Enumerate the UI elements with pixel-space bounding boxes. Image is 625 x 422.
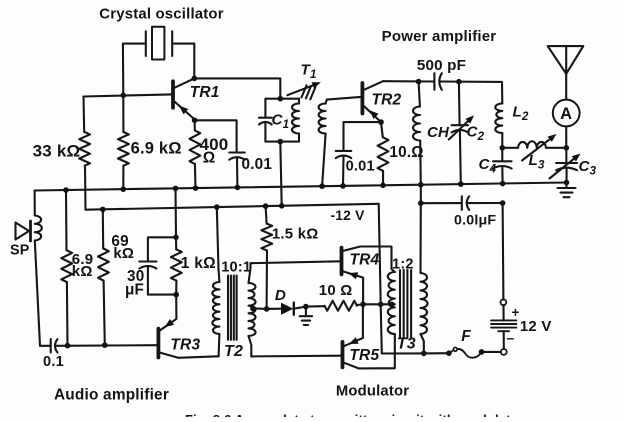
resistor 1 kOhm xyxy=(171,249,182,280)
wire decoupling right xyxy=(467,202,503,204)
node T3 secondary bottom xyxy=(421,351,427,357)
node -12V rail 1.5k xyxy=(263,203,269,209)
label TR4 xyxy=(350,251,380,268)
wire TR4 base xyxy=(251,261,341,263)
wire to 0.1 cap xyxy=(40,345,51,347)
wire battery top xyxy=(502,203,505,300)
svg-text:kΩ: kΩ xyxy=(72,263,93,280)
capacitor 30uF bottom wire xyxy=(148,266,176,294)
resistor 10 Ohm wire left xyxy=(306,305,325,307)
transformer T2 secondary bottom wire xyxy=(249,336,252,356)
label uF xyxy=(125,282,144,299)
node rail xyxy=(340,183,346,189)
transformer T1 primary stub xyxy=(298,99,300,104)
transistor TR5 emitter xyxy=(344,304,363,346)
transformer T1 secondary coil xyxy=(319,104,326,134)
meter A xyxy=(553,100,580,127)
wire TR3 collector to T2 xyxy=(217,355,220,357)
node rail xyxy=(121,186,127,192)
label SP xyxy=(10,242,30,258)
label 400 xyxy=(200,135,229,154)
transistor TR3 emitter xyxy=(160,295,176,331)
wire TR1 collector line xyxy=(194,78,280,98)
svg-text:T3: T3 xyxy=(397,335,416,352)
svg-text:12 V: 12 V xyxy=(520,318,552,335)
node emitters junction xyxy=(360,302,366,308)
capacitor 0.01 branch (TR2) xyxy=(344,122,382,151)
capacitor 0.01 branch wire xyxy=(195,120,237,152)
wire 0.01 bottom xyxy=(236,158,238,188)
antenna xyxy=(548,46,584,74)
wire TR3 base line xyxy=(55,344,157,347)
label C3 xyxy=(579,158,597,178)
wire battery xyxy=(502,305,504,320)
svg-text:F: F xyxy=(461,328,471,345)
node decoupling left xyxy=(418,200,424,206)
node tank top xyxy=(278,96,284,102)
wire TR1 base line xyxy=(84,94,172,96)
wire 33k bottom crossing rail to -12V rail xyxy=(84,166,87,210)
capacitor 0.1 xyxy=(51,339,58,352)
battery 12V plates xyxy=(491,320,516,331)
inductor SP coil xyxy=(35,216,42,241)
capacitor 0.01 (oscillator) xyxy=(229,153,245,160)
resistor 1.5k lead top xyxy=(266,206,267,224)
node rail xyxy=(380,183,386,189)
transformer T3 secondary bottom wire xyxy=(421,334,424,353)
label 6.9 kOhm xyxy=(131,139,182,157)
svg-text:+: + xyxy=(512,305,520,320)
label 10 Ohm xyxy=(389,144,423,161)
node antenna branch xyxy=(564,145,570,151)
capacitor C2 lead bottom xyxy=(459,131,462,185)
transistor TR3 collector xyxy=(160,353,218,358)
wire meter to node xyxy=(565,126,567,147)
svg-text:Power amplifier: Power amplifier xyxy=(382,28,497,45)
fuse F xyxy=(451,347,482,357)
svg-text:1:2: 1:2 xyxy=(392,257,414,273)
capacitor C1 loop top xyxy=(265,99,280,118)
transformer T1 core slug marks xyxy=(302,85,316,99)
capacitor C3 arrow xyxy=(550,154,581,179)
label Ohm xyxy=(203,149,216,166)
resistor 1.5 kOhm xyxy=(261,224,272,251)
node rail end xyxy=(564,180,570,186)
wire -12V to fuse line xyxy=(381,304,424,353)
transistor TR1 collector xyxy=(175,78,195,87)
svg-text:T2: T2 xyxy=(224,343,243,360)
resistor 69k top wire xyxy=(102,209,104,248)
transformer T2 primary wire top xyxy=(217,207,219,269)
label 12 V xyxy=(520,318,552,335)
node C2 top xyxy=(456,79,462,85)
label 6.9 xyxy=(72,251,93,268)
transformer T1 secondary bottom wire xyxy=(322,134,326,187)
svg-text:6.9 kΩ: 6.9 kΩ xyxy=(131,139,182,157)
resistor 1k top wire xyxy=(174,188,177,237)
node decoupling right xyxy=(500,200,506,206)
wire CH bottom xyxy=(419,141,422,185)
resistor 69k bottom wire xyxy=(104,281,105,346)
diode D xyxy=(267,303,306,315)
wire 6.9k bottom xyxy=(122,166,124,190)
transistor TR5 collector xyxy=(344,334,395,368)
transformer T2 center tap xyxy=(253,307,267,310)
label 10:1 xyxy=(221,259,251,275)
svg-text:TR4: TR4 xyxy=(350,251,380,268)
node rail xyxy=(418,182,424,188)
svg-text:10:1: 10:1 xyxy=(221,259,251,275)
resistor 6.9k audio top wire xyxy=(65,190,68,250)
inductor L3 wire left xyxy=(502,147,518,149)
label Audio amplifier xyxy=(54,386,169,403)
resistor 10 Ohm lead xyxy=(381,122,383,137)
resistor 10 Ohm (emitter) xyxy=(378,137,389,171)
label Power amplifier xyxy=(382,28,497,45)
transformer T2 primary lead xyxy=(217,269,220,282)
node fuse right xyxy=(479,349,485,355)
label 0.01uF xyxy=(454,212,496,228)
capacitor C4 lead xyxy=(501,148,503,161)
svg-text:500 pF: 500 pF xyxy=(417,57,466,74)
label 1:2 xyxy=(392,257,414,273)
wire -12V rail xyxy=(86,204,379,210)
svg-text:1 kΩ: 1 kΩ xyxy=(181,255,216,272)
transformer T1 primary top wire xyxy=(280,98,299,100)
capacitor C1 loop bottom xyxy=(265,123,280,142)
node TR1 base junction xyxy=(121,93,127,99)
speaker SP xyxy=(16,221,31,241)
inductor L3 wire right xyxy=(546,147,566,149)
label D xyxy=(275,287,286,304)
inductor L3 coil xyxy=(518,141,546,148)
node 1.5k bottom xyxy=(264,306,270,312)
wire 0.01 bottom xyxy=(342,156,345,186)
capacitor C2 arrow xyxy=(449,115,474,139)
node -12V rail T2 xyxy=(214,204,220,210)
battery + terminal xyxy=(501,299,507,305)
inductor CH lead xyxy=(419,82,420,107)
svg-text:A: A xyxy=(560,105,572,123)
transformer T1 primary bottom wire xyxy=(280,134,299,142)
transistor TR3 base bar xyxy=(156,329,160,358)
wire TR5 base xyxy=(251,355,341,358)
transformer T2 core xyxy=(228,276,237,340)
label 33 kOhm xyxy=(33,142,81,161)
wire battery to fuse xyxy=(482,351,502,353)
transformer T3 core xyxy=(400,270,411,338)
svg-text:10 Ω: 10 Ω xyxy=(319,282,353,299)
inductor L3 arrow xyxy=(522,134,557,161)
label kOhm xyxy=(72,263,93,280)
label C2 xyxy=(467,124,485,144)
transformer T2 secondary coil xyxy=(249,283,256,336)
label C4 xyxy=(479,156,497,176)
svg-text:TR2: TR2 xyxy=(372,91,402,108)
label - xyxy=(507,330,515,346)
node CH top xyxy=(416,79,422,85)
svg-text:–: – xyxy=(507,330,515,346)
node L2 bottom xyxy=(500,145,506,151)
capacitor C2 variable xyxy=(452,125,468,132)
crystal X1 body xyxy=(152,27,164,60)
label Crystal oscillator xyxy=(99,7,223,23)
transformer T3 secondary coil xyxy=(421,273,428,334)
node base 69k xyxy=(102,342,108,348)
node rail 6.9k xyxy=(63,187,69,193)
label 10 Ohm xyxy=(319,282,353,299)
svg-text:μF: μF xyxy=(125,282,144,299)
capacitor 500 pF xyxy=(434,73,441,90)
label -12 V xyxy=(331,208,366,223)
label 69 xyxy=(111,233,128,250)
transistor TR4 collector xyxy=(343,247,395,273)
resistor 69 kOhm xyxy=(98,249,109,281)
label F xyxy=(461,328,471,345)
resistor 1k lead xyxy=(175,237,177,249)
inductor L2 coil xyxy=(495,104,502,134)
inductor CH coil xyxy=(413,107,420,141)
cropped caption xyxy=(185,412,524,422)
label kOhm xyxy=(113,245,134,262)
crystal X1 left wire xyxy=(123,44,146,96)
label 0.01 xyxy=(346,159,375,175)
transformer T1 tuning arrow xyxy=(287,82,320,95)
node TR1 emitter junction xyxy=(192,118,198,124)
inductor L2 top wire xyxy=(501,82,503,104)
transformer T1 primary coil xyxy=(292,104,299,134)
node -12V 69k xyxy=(100,207,106,213)
transistor TR1 base bar xyxy=(171,81,175,107)
node fuse left xyxy=(446,350,452,356)
transformer T3 secondary top wire xyxy=(419,203,421,273)
label T3 xyxy=(397,335,416,352)
resistor 6.9 kOhm (oscillator) xyxy=(118,132,129,166)
svg-text:0.01: 0.01 xyxy=(242,156,273,173)
transformer T2 primary bottom wire xyxy=(218,334,221,356)
wire 500pF line left xyxy=(383,80,434,82)
inductor L2 lead bottom xyxy=(501,133,503,148)
label TR3 xyxy=(170,337,200,354)
capacitor C3 variable xyxy=(556,163,577,170)
battery - terminal xyxy=(501,349,507,355)
node rail xyxy=(319,183,325,189)
resistor 6.9 kOhm (audio) xyxy=(61,250,72,282)
node T2 center tap xyxy=(250,306,256,312)
node rail xyxy=(193,185,199,191)
label TR1 xyxy=(190,84,220,101)
transistor TR2 collector xyxy=(364,81,383,90)
label T2 xyxy=(224,343,243,360)
resistor 6.9k lead xyxy=(122,95,124,132)
svg-text:-12 V: -12 V xyxy=(331,208,366,223)
capacitor C3 lead xyxy=(565,148,567,163)
label L2 xyxy=(513,104,529,124)
svg-text:Ω: Ω xyxy=(203,149,216,166)
node rail xyxy=(458,181,464,187)
label L3 xyxy=(529,152,545,172)
node -12V rail xyxy=(279,203,285,209)
transistor TR1 emitter xyxy=(175,102,195,120)
label TR2 xyxy=(372,91,402,108)
resistor 33k lead top xyxy=(82,97,85,133)
node rail xyxy=(500,181,506,187)
ground (modulator) xyxy=(300,307,312,325)
svg-text:TR1: TR1 xyxy=(190,84,220,101)
resistor 10 Ohm (modulator) xyxy=(325,301,358,311)
wire decoupling left xyxy=(421,202,462,204)
svg-text:Audio amplifier: Audio amplifier xyxy=(54,386,169,403)
svg-text:TR3: TR3 xyxy=(170,337,200,354)
transformer T3 primary coil xyxy=(388,272,395,334)
capacitor 0.01 (power amp) xyxy=(336,151,352,158)
node 1k bottom xyxy=(173,292,179,298)
resistor 400 Ohm lead xyxy=(194,120,196,130)
crystal X1 right wire xyxy=(172,44,194,79)
transistor TR5 base bar xyxy=(341,342,345,368)
node TR2 emitter junction xyxy=(378,119,384,125)
resistor 1k lead bottom xyxy=(175,281,177,295)
crystal X1 plates xyxy=(146,31,172,56)
svg-text:CH: CH xyxy=(427,124,450,141)
svg-text:0.0lμF: 0.0lμF xyxy=(454,212,496,228)
wire 500pF line right xyxy=(440,80,502,83)
wire 400 bottom xyxy=(194,164,197,188)
transistor TR4 base bar xyxy=(340,248,344,275)
capacitor C1 xyxy=(259,118,272,125)
node center tap xyxy=(389,302,395,308)
node TR1 collector xyxy=(192,76,198,82)
transistor TR2 emitter xyxy=(364,106,381,122)
label Modulator xyxy=(336,383,409,399)
label TR5 xyxy=(349,347,379,364)
wire tank bottom to -12V rail xyxy=(280,142,281,206)
wire antenna feed xyxy=(565,74,567,100)
ground (antenna) xyxy=(558,183,576,198)
node diode ground xyxy=(303,304,309,310)
wire C3 bottom xyxy=(565,168,567,182)
svg-text:Modulator: Modulator xyxy=(336,383,409,399)
wire battery bottom xyxy=(503,331,505,349)
wire ground rail (top common rail) xyxy=(35,183,567,191)
transformer T1 secondary top wire xyxy=(326,97,361,104)
svg-text:kΩ: kΩ xyxy=(113,245,134,262)
wire 10 Ohm bottom xyxy=(382,171,384,185)
resistor 400 Ohm xyxy=(190,130,201,164)
label 30 xyxy=(127,268,144,285)
svg-text:0.1: 0.1 xyxy=(43,354,64,370)
svg-text:SP: SP xyxy=(10,242,30,258)
label CH xyxy=(427,124,450,141)
wire T3 center tap xyxy=(363,303,395,305)
node rail 1k xyxy=(173,186,179,192)
node 1k top xyxy=(173,235,179,241)
label T1 xyxy=(301,62,317,82)
svg-text:10.Ω: 10.Ω xyxy=(389,144,423,161)
transformer T2 secondary top wire xyxy=(249,263,251,283)
wire SP coil down xyxy=(35,241,40,346)
transistor TR2 base bar xyxy=(360,83,364,114)
wire -12V drop xyxy=(379,204,381,304)
node base 6.9k xyxy=(65,343,71,349)
label + xyxy=(512,305,520,320)
capacitor 30 uF xyxy=(139,262,156,269)
svg-text:0.01: 0.01 xyxy=(346,159,375,175)
resistor 1.5k lead bottom xyxy=(266,250,268,309)
label 0.01 xyxy=(242,156,273,173)
svg-text:Crystal oscillator: Crystal oscillator xyxy=(99,7,223,23)
svg-text:33 kΩ: 33 kΩ xyxy=(33,142,81,161)
svg-text:TR5: TR5 xyxy=(349,347,379,364)
node tank bottom xyxy=(278,139,284,145)
label 0.1 xyxy=(43,354,64,370)
node rail xyxy=(235,185,241,191)
capacitor 0.01uF xyxy=(462,196,469,210)
svg-text:D: D xyxy=(275,287,286,304)
node -12V emitters xyxy=(378,302,384,308)
capacitor 30uF top wire xyxy=(148,237,176,261)
resistor 10 Ohm wire right xyxy=(357,303,363,306)
wire C4 bottom xyxy=(501,167,503,184)
resistor 6.9k audio bottom wire xyxy=(66,282,69,346)
wire fuse to T3 xyxy=(424,352,449,354)
resistor 33 kOhm xyxy=(79,132,90,166)
capacitor C2 lead top xyxy=(458,82,461,125)
wire CH-rail to decoupling xyxy=(420,185,422,204)
label 1.5 kOhm xyxy=(272,225,319,242)
svg-text:1.5 kΩ: 1.5 kΩ xyxy=(272,225,319,242)
transistor TR4 emitter xyxy=(343,271,363,304)
svg-text:Fig. 8.6 A complete transmitt: Fig. 8.6 A complete transmitter circuit … xyxy=(185,412,524,417)
wire rail to SP coil xyxy=(34,191,36,216)
label C1 xyxy=(272,112,290,132)
transformer T2 primary coil xyxy=(212,282,219,334)
label 500 pF xyxy=(417,57,466,74)
capacitor C4 xyxy=(493,161,512,168)
label 1 kOhm xyxy=(181,255,216,272)
